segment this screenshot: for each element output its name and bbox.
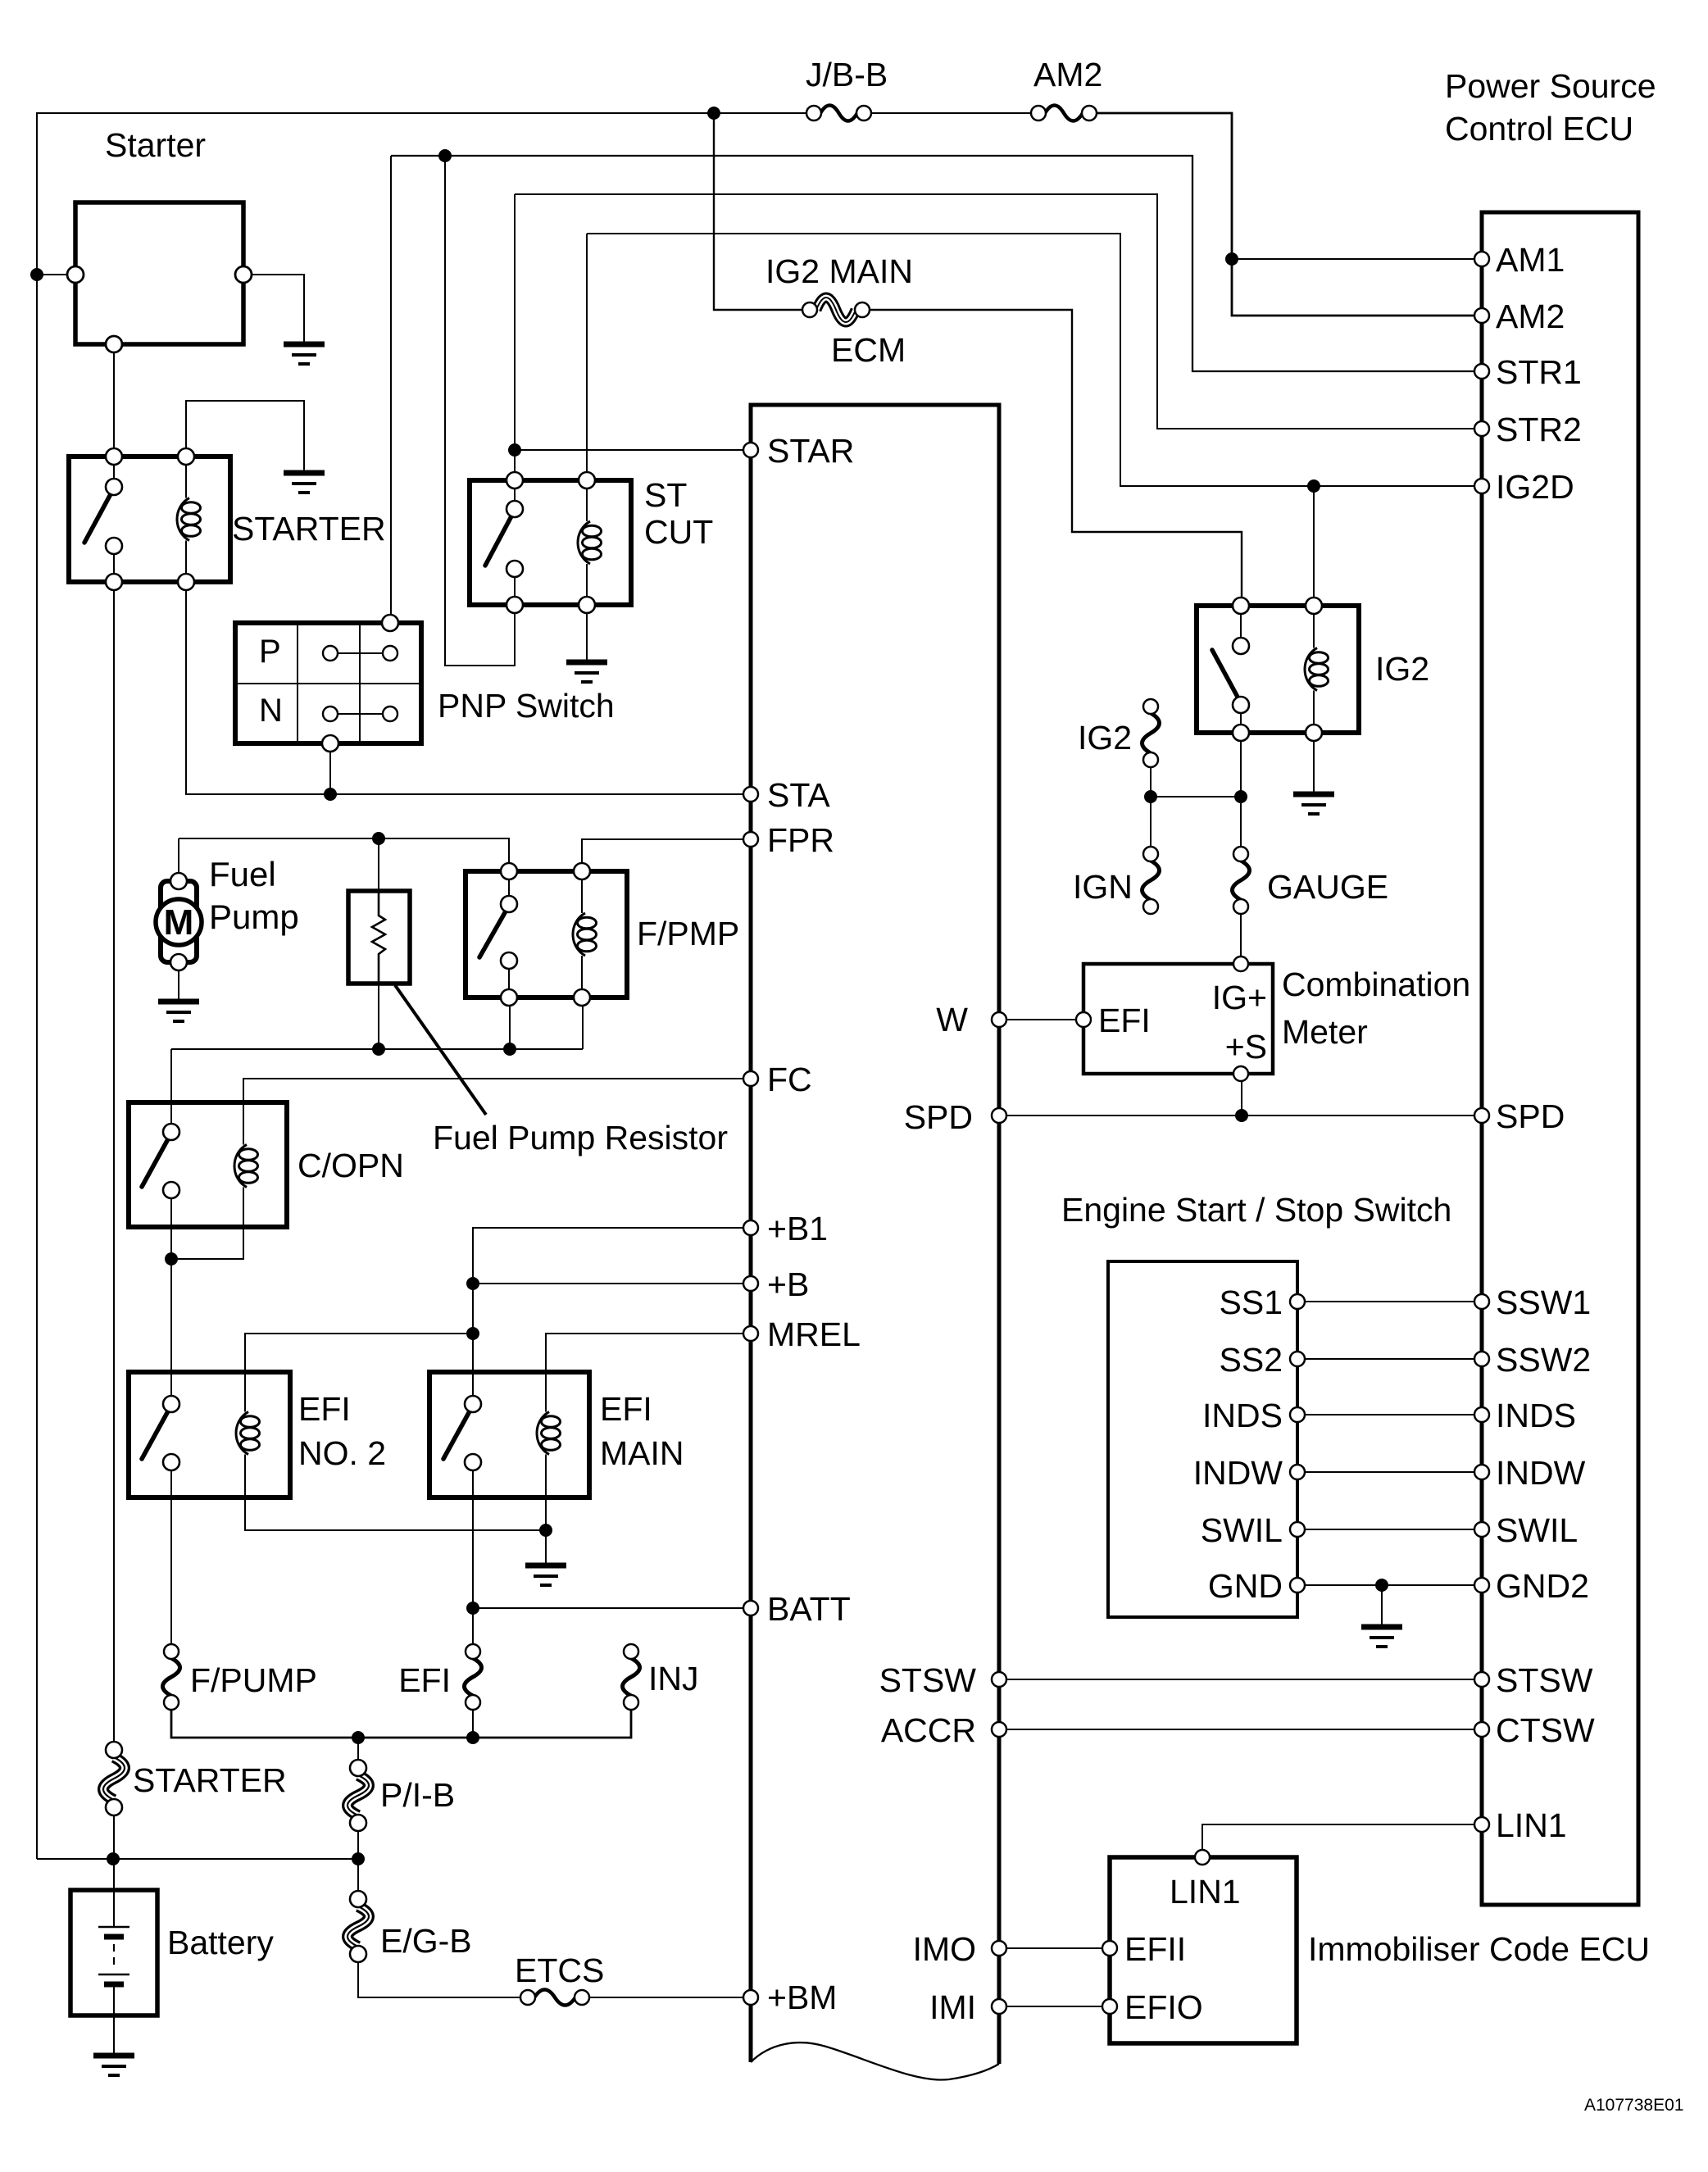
ground G4 fuel pump <box>158 999 199 1005</box>
wire E/G-B link feed <box>357 1859 359 1892</box>
terminal PNP bottom <box>322 735 338 752</box>
wire resistor bottom lead <box>378 984 379 1049</box>
svg-text:GAUGE: GAUGE <box>1267 868 1388 906</box>
pin ECU SPD <box>1474 1108 1489 1123</box>
pin STSW ECM <box>992 1672 1006 1687</box>
wire pump-return bus y1280 <box>171 1048 583 1050</box>
fuse AM2 (top) <box>1045 106 1083 121</box>
svg-text:STAR: STAR <box>767 432 854 470</box>
wire battery bus y2268 <box>37 1858 358 1860</box>
pin ECU CTSW <box>1474 1722 1489 1737</box>
svg-text:LIN1: LIN1 <box>1170 1873 1241 1911</box>
svg-text:LIN1: LIN1 <box>1496 1806 1567 1844</box>
svg-text:AM1: AM1 <box>1496 241 1565 279</box>
terminal IG2 coil bottom <box>1306 725 1322 741</box>
svg-text:PNP Switch: PNP Switch <box>438 687 615 725</box>
fuel pump motor circle M <box>156 899 202 945</box>
relay F/PMP box <box>466 871 627 997</box>
svg-text:E/G-B: E/G-B <box>380 1922 472 1960</box>
svg-text:IMI: IMI <box>929 1988 976 2026</box>
wire C/OPN coil top to FC pin <box>243 1079 744 1139</box>
wire main battery feed: left vertical and top bus to J/B-B <box>37 113 807 1859</box>
pin meter +S <box>1233 1066 1248 1081</box>
pin SS1 <box>1290 1294 1305 1309</box>
wire STR1 corner down to PNP switch <box>390 156 392 615</box>
node D STAR branch <box>508 443 521 457</box>
wire STR1 net: corner to STR1 pin <box>391 156 1474 371</box>
wire SSW1 <box>1305 1301 1474 1302</box>
svg-text:EFI: EFI <box>600 1390 652 1428</box>
svg-text:Meter: Meter <box>1282 1013 1368 1051</box>
wire EFI coils to ground <box>545 1530 547 1565</box>
svg-text:Immobiliser Code ECU: Immobiliser Code ECU <box>1308 1930 1650 1968</box>
svg-text:SPD: SPD <box>1496 1097 1565 1135</box>
svg-text:EFI: EFI <box>1098 1002 1151 1039</box>
svg-text:FC: FC <box>767 1061 812 1098</box>
ground G7 engine switch <box>1361 1624 1402 1630</box>
svg-text:IG2D: IG2D <box>1496 468 1574 506</box>
node G PNP to STA <box>324 788 337 801</box>
pin ECU SSW2 <box>1474 1352 1489 1366</box>
wire ST CUT switch top <box>514 194 516 472</box>
terminal STARTER sw bottom <box>106 574 122 590</box>
PNP divider vertical 2 <box>359 623 361 743</box>
svg-text:W: W <box>936 1001 968 1038</box>
wire AM1 branch <box>1232 258 1474 260</box>
node L +B junction <box>466 1277 479 1290</box>
wire node to GAUGE fuse <box>1240 797 1242 846</box>
fuel pump resistor box <box>348 891 410 984</box>
pin +B <box>743 1276 758 1291</box>
wire STARTER relay coil to ground <box>186 401 304 473</box>
wire P/I-B to battery bus <box>357 1830 359 1859</box>
pin IMI <box>992 1999 1006 2014</box>
PNP divider horizontal <box>235 683 421 684</box>
wire W pin to meter EFI <box>1006 1019 1077 1020</box>
node E IG2 relay coil branch <box>1307 479 1320 493</box>
wire IGN fuse top lead <box>1150 797 1152 846</box>
relay STARTER switch <box>113 465 115 479</box>
terminal IG2 sw top <box>1233 598 1249 614</box>
wire SWIL <box>1305 1529 1474 1530</box>
pin meter EFI <box>1076 1012 1091 1027</box>
fusible link IG2 MAIN <box>816 298 856 322</box>
svg-text:EFI: EFI <box>298 1390 351 1428</box>
relay EFI NO.2 box <box>129 1372 290 1497</box>
relay ST CUT box <box>470 480 631 605</box>
svg-text:INJ: INJ <box>648 1660 699 1697</box>
wire starter B+ branch <box>37 274 67 275</box>
PNP switch box <box>235 623 421 743</box>
wire FPR pin to F/PMP relay coil <box>582 839 744 863</box>
node A main-feed top-left to starter branch <box>30 268 43 281</box>
svg-text:EFII: EFII <box>1124 1930 1186 1968</box>
wire STAR to ECM <box>515 449 744 451</box>
pin INDS <box>1290 1407 1305 1422</box>
svg-text:MREL: MREL <box>767 1315 861 1353</box>
wire F/PMP coil bottom <box>582 1006 584 1049</box>
wire STARTER relay switch bottom down to STARTER fusible link <box>113 590 115 1742</box>
fuel pump motor housing <box>161 881 197 962</box>
wire STR2 net: ST CUT top tee to STR2 pin <box>515 194 1474 429</box>
svg-text:SSW2: SSW2 <box>1496 1341 1591 1379</box>
svg-text:STARTER: STARTER <box>232 510 386 548</box>
pin SWIL <box>1290 1522 1305 1537</box>
relay C/OPN switch <box>142 1138 169 1187</box>
relay IG2 coil <box>1313 614 1315 648</box>
immobiliser code ECU box <box>1110 1857 1297 2043</box>
svg-text:MAIN: MAIN <box>600 1434 684 1472</box>
wire +B pin <box>473 1283 744 1284</box>
ECM block with torn bottom <box>751 405 999 2064</box>
svg-text:F/PUMP: F/PUMP <box>190 1661 317 1699</box>
terminal pump bottom <box>170 954 187 970</box>
node C STR1/ST-CUT branch <box>438 149 452 162</box>
pin ECU AM1 <box>1474 252 1489 266</box>
svg-text:F/PMP: F/PMP <box>637 915 739 952</box>
wire IG2 relay coil to ground <box>1313 741 1315 794</box>
pin SPD ECM <box>992 1108 1006 1123</box>
svg-text:SSW1: SSW1 <box>1496 1284 1591 1321</box>
svg-text:CUT: CUT <box>644 513 713 551</box>
pin IMO <box>992 1941 1006 1956</box>
svg-text:IG2: IG2 <box>1375 650 1429 688</box>
pin ECU IG2D <box>1474 479 1489 493</box>
wire IMI to EFIO <box>1006 2006 1103 2007</box>
svg-text:AM2: AM2 <box>1033 56 1102 93</box>
wire INDS <box>1305 1414 1474 1415</box>
pin FPR <box>743 832 758 847</box>
terminal STARTER sw top <box>106 448 122 465</box>
node V IG2 fuse junction <box>1144 790 1157 803</box>
pin ECU INDS <box>1474 1407 1489 1422</box>
battery box <box>70 1890 157 2015</box>
pin BATT <box>743 1601 758 1615</box>
wire battery positive lead <box>113 1859 115 1927</box>
terminal IG2 sw bottom <box>1233 725 1249 741</box>
svg-text:GND: GND <box>1208 1567 1283 1605</box>
wire ACCR to CTSW <box>1006 1729 1474 1730</box>
wire SPD line <box>1006 1115 1474 1116</box>
svg-text:STSW: STSW <box>1496 1661 1593 1699</box>
wire switch ground lead <box>1381 1585 1383 1627</box>
wire MREL pin to EFI MAIN coil <box>546 1334 744 1411</box>
pin ECU GND2 <box>1474 1578 1489 1593</box>
wire IMO to EFII <box>1006 1947 1103 1949</box>
svg-text:IMO: IMO <box>913 1930 976 1968</box>
wire C/OPN switch top <box>170 1049 172 1124</box>
svg-text:Engine Start / Stop Switch: Engine Start / Stop Switch <box>1061 1191 1451 1229</box>
pin ECU INDW <box>1474 1465 1489 1479</box>
svg-text:ACCR: ACCR <box>881 1711 976 1749</box>
svg-text:J/B-B: J/B-B <box>806 56 888 93</box>
svg-text:Battery: Battery <box>167 1924 274 1961</box>
node S E/G-B junction <box>352 1852 365 1865</box>
wire IG2 MAIN to IG2 relay switch <box>869 310 1242 598</box>
wire F/PMP switch bottom <box>509 1006 511 1049</box>
pin immo LIN1 <box>1195 1850 1210 1865</box>
terminal starter left <box>67 266 84 283</box>
svg-text:INDW: INDW <box>1193 1454 1283 1492</box>
terminal FPMP sw bottom <box>501 989 517 1006</box>
terminal STCUT sw bottom <box>506 597 523 613</box>
svg-text:INDS: INDS <box>1496 1397 1576 1434</box>
wire EFI NO.2 switch bottom to F/PUMP fuse <box>170 1470 172 1643</box>
wire C/OPN node down to EFI NO.2 switch <box>170 1259 172 1396</box>
node P bus/P-I-B <box>352 1731 365 1744</box>
terminal starter right <box>235 266 252 283</box>
relay EFI NO.2 switch <box>142 1410 169 1459</box>
pin MREL <box>743 1326 758 1341</box>
wire +B1 to EFI MAIN switch <box>473 1228 744 1284</box>
fuse IGN (stub) <box>1142 861 1160 900</box>
svg-text:+B: +B <box>767 1265 809 1303</box>
node Q bus/EFI <box>466 1731 479 1744</box>
terminal pump top <box>170 873 187 889</box>
pin ECU STSW <box>1474 1672 1489 1687</box>
node T meter +S junction <box>1235 1109 1248 1122</box>
wire IG2 fuse bottom lead <box>1150 768 1152 797</box>
starter assembly box <box>75 202 243 344</box>
terminal starter bottom <box>106 336 122 352</box>
wire ST CUT coil bottom to ground <box>586 613 588 662</box>
svg-text:SS2: SS2 <box>1220 1341 1283 1379</box>
svg-text:P: P <box>259 634 281 670</box>
wire INDW <box>1305 1471 1474 1473</box>
fusible link STARTER <box>103 1757 125 1800</box>
svg-text:STR1: STR1 <box>1496 353 1582 391</box>
pin GND <box>1290 1578 1305 1593</box>
ground G1 starter motor <box>284 342 325 348</box>
wire IG2 relay coil feed <box>1313 486 1315 598</box>
ground G8 battery <box>93 2053 134 2059</box>
relay ST CUT switch <box>514 488 516 501</box>
svg-text:INDS: INDS <box>1202 1397 1283 1434</box>
pin immo EFIO <box>1102 1999 1117 2014</box>
wire battery negative lead <box>113 1984 115 2056</box>
wire EFI fuse to bus <box>472 1710 474 1738</box>
callout line fuel pump resistor <box>395 985 486 1115</box>
ground G2 starter relay coil <box>284 470 325 476</box>
node U IG2 switch bottom <box>1234 790 1247 803</box>
wire LIN1 <box>1202 1824 1474 1851</box>
svg-text:Power Source: Power Source <box>1445 67 1656 105</box>
PNP divider vertical 1 <box>297 623 298 743</box>
svg-text:N: N <box>259 693 283 729</box>
svg-text:+BM: +BM <box>767 1979 837 2016</box>
svg-text:SS1: SS1 <box>1220 1284 1283 1321</box>
svg-text:SWIL: SWIL <box>1496 1511 1578 1549</box>
terminal IG2 coil top <box>1306 598 1322 614</box>
svg-text:STSW: STSW <box>879 1661 977 1699</box>
pin INDW <box>1290 1465 1305 1479</box>
svg-text:IGN: IGN <box>1073 868 1133 906</box>
svg-text:NO. 2: NO. 2 <box>298 1434 386 1472</box>
pin ECU AM2 <box>1474 308 1489 323</box>
svg-text:Starter: Starter <box>105 126 206 164</box>
svg-text:Fuel Pump Resistor: Fuel Pump Resistor <box>433 1119 728 1156</box>
wire C/OPN coil bottom jumper <box>171 1193 243 1259</box>
svg-text:INDW: INDW <box>1496 1454 1586 1492</box>
svg-text:+B1: +B1 <box>767 1210 828 1247</box>
pin meter IG+ <box>1233 956 1248 971</box>
svg-text:Fuel: Fuel <box>209 855 276 893</box>
fuse EFI <box>465 1658 482 1696</box>
svg-text:FPR: FPR <box>767 821 834 859</box>
svg-text:Combination: Combination <box>1282 966 1470 1003</box>
pin ACCR <box>992 1722 1006 1737</box>
wire starter motor + terminal <box>252 275 304 344</box>
node O BATT junction <box>466 1602 479 1615</box>
wire EFI MAIN switch bottom to BATT line <box>472 1470 474 1643</box>
svg-text:Pump: Pump <box>209 897 299 936</box>
fuse GAUGE <box>1233 861 1250 900</box>
node M MREL-left junction <box>466 1327 479 1340</box>
wire EFI MAIN coil bottom <box>545 1455 547 1530</box>
relay IG2 switch <box>1240 614 1242 638</box>
wire EFI NO.2 coil bottom to ground bus <box>245 1455 546 1530</box>
terminal STCUT coil bottom <box>579 597 595 613</box>
ground G5 EFI relays <box>525 1563 566 1569</box>
terminal FPMP coil bottom <box>574 989 590 1006</box>
wire SSW2 <box>1305 1358 1474 1360</box>
wire fuse bus y2120 <box>171 1710 631 1738</box>
wire fuel pump feed corner <box>178 838 179 873</box>
node N EFI coils ground junction <box>539 1524 552 1537</box>
node I resistor bottom <box>372 1043 385 1056</box>
node J F/PMP switch bottom <box>503 1043 516 1056</box>
wire PNP bottom terminal <box>329 752 331 794</box>
power source control ECU box <box>1482 212 1638 1905</box>
wire ETCS to +BM pin <box>588 1997 744 1998</box>
PNP P contact pair <box>338 652 383 654</box>
pin STAR <box>743 443 758 457</box>
svg-text:EFIO: EFIO <box>1124 1988 1203 2026</box>
wire C/OPN switch bottom to node <box>170 1198 172 1259</box>
ground G3 ST CUT coil <box>566 660 607 666</box>
svg-text:STARTER: STARTER <box>133 1761 287 1799</box>
node B AM1 branch <box>1225 252 1238 266</box>
wire IG2D net loop (ST CUT coil to IG2D pin) <box>587 234 1474 486</box>
wire bus down to P/I-B link <box>357 1738 359 1760</box>
fuse ETCS <box>534 1990 575 2006</box>
svg-text:ETCS: ETCS <box>515 1952 604 1989</box>
relay IG2 box <box>1197 606 1359 733</box>
pin FC <box>743 1071 758 1086</box>
relay STARTER coil <box>185 465 187 498</box>
svg-text:SWIL: SWIL <box>1201 1511 1283 1549</box>
relay EFI MAIN box <box>429 1372 589 1497</box>
relay F/PMP switch <box>508 879 510 896</box>
ground G6 IG2 relay coil <box>1293 792 1334 797</box>
wire fuel pump to ground <box>178 970 179 1002</box>
svg-text:IG+: IG+ <box>1212 979 1267 1016</box>
wire STARTER relay coil bottom to STA pin <box>186 590 744 794</box>
svg-text:IG2 MAIN: IG2 MAIN <box>765 252 913 290</box>
svg-text:EFI: EFI <box>398 1661 451 1699</box>
terminal STCUT sw top <box>506 472 523 488</box>
ECM torn-edge wave <box>751 2042 999 2079</box>
wire GND to GND2 <box>1305 1584 1474 1586</box>
wire IG2-fuse tie bar <box>1151 796 1241 797</box>
pin +B1 <box>743 1220 758 1235</box>
svg-text:M: M <box>164 902 194 943</box>
relay C/OPN coil <box>243 1139 244 1145</box>
svg-text:+S: +S <box>1225 1028 1267 1066</box>
terminal FPMP coil top <box>574 863 590 879</box>
node K C/OPN bottom <box>165 1252 178 1265</box>
wire ST CUT coil top <box>586 234 588 472</box>
wire GAUGE fuse to meter IG+ <box>1240 914 1242 956</box>
svg-text:CTSW: CTSW <box>1496 1711 1595 1749</box>
pin SS2 <box>1290 1352 1305 1366</box>
fuse INJ <box>623 1658 640 1696</box>
svg-text:C/OPN: C/OPN <box>298 1147 404 1184</box>
relay STARTER box <box>69 457 230 582</box>
relay C/OPN box <box>129 1102 287 1227</box>
svg-text:A107738E01: A107738E01 <box>1584 2096 1683 2115</box>
wire J/B-B to AM2 fuse <box>870 112 1032 114</box>
svg-text:ECM: ECM <box>831 331 906 369</box>
pin ECU STR1 <box>1474 364 1489 379</box>
wire +B down <box>472 1284 474 1396</box>
node R battery junction <box>107 1852 120 1865</box>
PNP N contact pair <box>338 713 383 715</box>
relay EFI MAIN coil <box>545 1411 547 1413</box>
wire starter solenoid to relay <box>113 352 115 448</box>
svg-text:STA: STA <box>767 776 830 814</box>
svg-text:Control ECU: Control ECU <box>1445 110 1633 148</box>
svg-text:IG2: IG2 <box>1078 719 1132 757</box>
pin +BM <box>743 1990 758 2005</box>
wire IG2 MAIN feed from top bus <box>714 113 803 310</box>
svg-text:AM2: AM2 <box>1496 298 1565 335</box>
wire IG2 relay switch bottom <box>1240 741 1242 797</box>
relay EFI MAIN switch <box>443 1410 470 1459</box>
relay F/PMP coil <box>581 879 583 913</box>
svg-text:SPD: SPD <box>904 1098 973 1136</box>
pin ECU SSW1 <box>1474 1294 1489 1309</box>
terminal STCUT coil top <box>579 472 595 488</box>
wire resistor top lead <box>378 838 379 891</box>
node H resistor top <box>372 832 385 845</box>
svg-text:ST: ST <box>644 476 687 514</box>
fuse F/PUMP <box>163 1658 180 1696</box>
wire BATT pin <box>473 1607 744 1609</box>
pin immo EFII <box>1102 1941 1117 1956</box>
fuse J/B-B <box>820 106 857 121</box>
terminal STARTER coil top <box>178 448 194 465</box>
wire E/G-B to ETCS fuse <box>358 1961 521 1997</box>
battery cell plates <box>98 1926 129 1929</box>
fusible link E/G-B <box>348 1906 369 1947</box>
terminal PNP top <box>382 615 398 631</box>
fuse IG2 (stub) <box>1142 713 1160 753</box>
wire AM2 fuse to AM2 pin <box>1096 113 1474 316</box>
svg-text:P/I-B: P/I-B <box>380 1776 455 1814</box>
pin STA <box>743 787 758 802</box>
node F top bus to IG2 MAIN <box>707 107 720 120</box>
wire STSW <box>1006 1679 1474 1680</box>
terminal STARTER coil bottom <box>178 574 194 590</box>
wire EFI NO.2 coil feed <box>245 1334 473 1411</box>
pin W <box>992 1012 1006 1027</box>
combination meter box <box>1083 964 1273 1074</box>
resistor element <box>372 891 385 984</box>
wire STARTER link to battery node <box>113 1815 115 1859</box>
pin ECU LIN1 <box>1474 1817 1489 1832</box>
relay ST CUT coil <box>586 488 588 521</box>
